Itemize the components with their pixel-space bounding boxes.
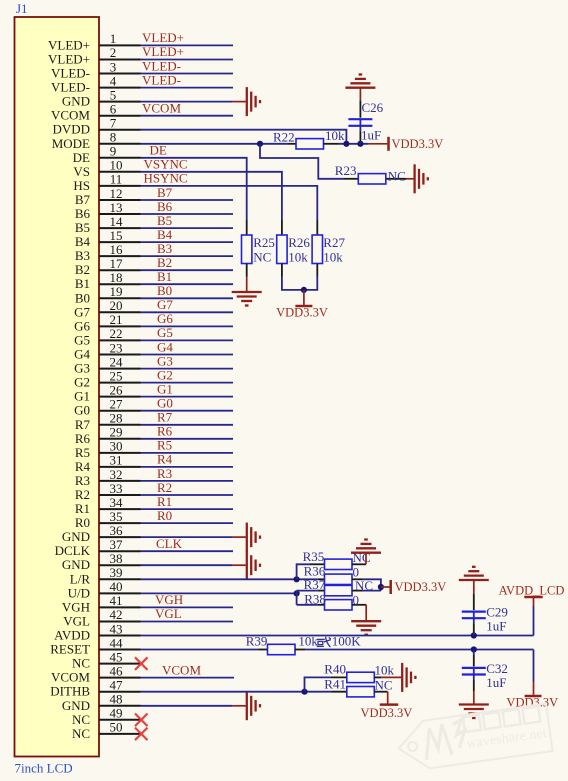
pin 21 (G6) stub, number and name <box>74 312 140 333</box>
svg-text:G2: G2 <box>74 375 90 390</box>
svg-text:R3: R3 <box>157 466 172 481</box>
no-connect X pin 45 <box>135 657 148 670</box>
svg-text:40: 40 <box>110 579 123 594</box>
ground pin 48 <box>233 691 260 720</box>
svg-text:VCOM: VCOM <box>51 670 90 685</box>
svg-text:23: 23 <box>110 340 123 355</box>
pin 12 (B7) stub, number and name <box>75 186 141 207</box>
svg-text:NC: NC <box>388 168 406 183</box>
pin 34 (R1) stub, number and name <box>75 495 141 516</box>
wire pin 23 <box>141 354 234 356</box>
pin 47 (DITHB) stub, number and name <box>50 678 140 699</box>
resistor R23 NC <box>335 163 406 184</box>
svg-text:50: 50 <box>110 720 123 735</box>
svg-text:NC: NC <box>72 726 90 741</box>
svg-text:R7: R7 <box>75 417 91 432</box>
svg-text:NC: NC <box>72 656 90 671</box>
svg-text:R38: R38 <box>304 591 326 606</box>
svg-text:R2: R2 <box>157 480 172 495</box>
wire pin 22 <box>141 339 234 341</box>
pin 18 (B1) stub, number and name <box>75 270 141 291</box>
junction DVDD/R22 <box>343 141 349 147</box>
svg-text:AVDD: AVDD <box>54 628 90 643</box>
svg-text:G5: G5 <box>157 325 173 340</box>
svg-text:8: 8 <box>110 130 117 145</box>
svg-text:G4: G4 <box>157 339 173 354</box>
svg-text:G7: G7 <box>157 297 173 312</box>
wire R36 right to VDD riser <box>362 579 381 590</box>
svg-text:0: 0 <box>353 592 360 607</box>
watermark text <box>463 706 548 751</box>
wire R26/R27 bottoms joined <box>282 277 317 290</box>
wire pin 12 <box>141 199 234 201</box>
svg-text:VSYNC: VSYNC <box>144 157 188 172</box>
watermark waveshare tag <box>395 704 552 773</box>
wire pin 29 <box>141 438 234 440</box>
svg-text:GND: GND <box>62 698 90 713</box>
junction C32 on row 44 <box>471 646 477 652</box>
wire pin 36 <box>141 536 233 538</box>
svg-text:R2: R2 <box>75 487 90 502</box>
junction row 47 / R40 riser <box>301 689 307 695</box>
wire DITHB row 47 to R41 <box>141 691 331 693</box>
svg-text:R40: R40 <box>324 662 346 677</box>
svg-text:R37: R37 <box>304 577 326 592</box>
wire pin 30 <box>141 452 234 454</box>
pin 41 (VGH) stub, number and name <box>62 593 141 614</box>
wire pin 34 <box>141 508 234 510</box>
svg-text:NC: NC <box>253 250 271 265</box>
svg-text:C32: C32 <box>486 661 508 676</box>
svg-text:DCLK: DCLK <box>55 543 91 558</box>
svg-text:VDD3.3V: VDD3.3V <box>392 137 444 151</box>
pin 46 (VCOM) stub, number and name <box>51 663 141 684</box>
pin 37 (DCLK) stub, number and name <box>55 537 141 558</box>
svg-text:VGL: VGL <box>155 606 182 621</box>
wire riser R37 to R38 <box>296 591 298 605</box>
wire pin 25 <box>141 382 234 384</box>
wire pin 32 <box>141 480 234 482</box>
svg-text:G7: G7 <box>74 304 90 319</box>
pin 9 (DE) stub, number and name <box>73 144 141 165</box>
svg-text:36: 36 <box>110 523 124 538</box>
svg-text:R35: R35 <box>303 549 325 564</box>
svg-text:10k: 10k <box>288 250 308 265</box>
capacitor C32 1uF <box>462 650 508 692</box>
svg-text:B3: B3 <box>75 248 90 263</box>
resistor R37 NC <box>304 577 373 596</box>
wire R37 right lead to VDD junction <box>362 590 381 592</box>
pin 48 (GND) stub, number and name <box>62 692 141 713</box>
svg-text:DITHB: DITHB <box>50 684 90 699</box>
svg-text:R5: R5 <box>75 445 90 460</box>
svg-text:46: 46 <box>110 663 124 678</box>
pin 8 (MODE) stub, number and name <box>52 130 141 151</box>
svg-text:30: 30 <box>110 439 123 454</box>
svg-text:24: 24 <box>110 354 124 369</box>
wire pin 21 <box>141 325 234 327</box>
resistor R26 10k <box>277 219 311 276</box>
svg-text:2: 2 <box>110 45 117 60</box>
wire pin 27 <box>141 410 234 412</box>
svg-text:1: 1 <box>110 31 117 46</box>
svg-text:44: 44 <box>110 635 124 650</box>
svg-text:34: 34 <box>110 495 124 510</box>
svg-text:VLED+: VLED+ <box>142 44 184 59</box>
svg-text:17: 17 <box>110 256 124 271</box>
wire AVDD riser <box>533 606 535 636</box>
svg-text:49: 49 <box>110 706 123 721</box>
svg-text:GND: GND <box>62 94 90 109</box>
svg-text:VS: VS <box>73 164 90 179</box>
resistor R39 10k/100K <box>141 634 306 655</box>
svg-text:R6: R6 <box>75 431 91 446</box>
svg-text:NC: NC <box>72 712 90 727</box>
svg-text:R4: R4 <box>75 459 91 474</box>
wire pin 4 <box>141 87 234 89</box>
svg-text:42: 42 <box>110 607 123 622</box>
svg-text:10k: 10k <box>298 634 318 649</box>
svg-text:L/R: L/R <box>70 571 91 586</box>
svg-text:GND: GND <box>62 529 90 544</box>
svg-text:C26: C26 <box>362 100 384 115</box>
pin 22 (G5) stub, number and name <box>74 326 140 347</box>
wire pin 24 <box>141 368 234 370</box>
power VDD3.3V (below R26/R27) <box>276 290 328 319</box>
pin 38 (GND) stub, number and name <box>62 551 141 572</box>
wire pin 26 <box>141 396 234 398</box>
wire pin 3 <box>141 73 234 75</box>
wire pin 35 <box>141 522 234 524</box>
pin 14 (B5) stub, number and name <box>75 214 141 235</box>
svg-text:R4: R4 <box>157 452 173 467</box>
svg-text:VGH: VGH <box>62 599 90 614</box>
svg-text:38: 38 <box>110 551 123 566</box>
svg-text:B7: B7 <box>157 185 173 200</box>
pin 13 (B6) stub, number and name <box>75 200 141 221</box>
svg-text:VDD3.3V: VDD3.3V <box>276 305 328 319</box>
svg-text:R39: R39 <box>246 634 268 649</box>
wire riser to R37 <box>297 590 318 592</box>
svg-text:AVDD_LCD: AVDD_LCD <box>499 584 565 598</box>
svg-text:VGL: VGL <box>63 614 90 629</box>
svg-text:21: 21 <box>110 312 123 327</box>
ground above R35 <box>351 540 381 565</box>
resistor R35 NC <box>303 549 371 570</box>
pin 6 (VCOM) stub, number and name <box>51 102 141 123</box>
svg-text:22: 22 <box>110 326 123 341</box>
pin 4 (VLED-) stub, number and name <box>51 73 141 94</box>
svg-text:16: 16 <box>110 242 124 257</box>
svg-text:G5: G5 <box>74 332 90 347</box>
svg-text:7: 7 <box>110 116 117 131</box>
pin 35 (R0) stub, number and name <box>75 509 141 530</box>
svg-text:VCOM: VCOM <box>162 662 201 677</box>
junction VDD at R36/R37 <box>378 584 384 590</box>
wire AVDD row 43 <box>141 635 534 637</box>
svg-text:B1: B1 <box>75 276 90 291</box>
svg-text:B0: B0 <box>157 283 172 298</box>
resistor R27 10k <box>312 219 345 276</box>
svg-text:G6: G6 <box>74 318 90 333</box>
svg-text:G2: G2 <box>157 367 173 382</box>
svg-text:DE: DE <box>150 143 167 158</box>
svg-text:28: 28 <box>110 411 123 426</box>
svg-text:U/D: U/D <box>68 585 90 600</box>
wire pin 19 <box>141 297 234 299</box>
wire pin 15 <box>141 241 234 243</box>
svg-text:VCOM: VCOM <box>51 108 90 123</box>
ground at R23 <box>406 164 428 193</box>
svg-text:43: 43 <box>110 621 123 636</box>
capacitor C29 1uF <box>462 594 508 636</box>
wire pin 16 <box>141 255 234 257</box>
svg-text:6: 6 <box>110 102 117 117</box>
svg-text:R3: R3 <box>75 473 90 488</box>
svg-text:13: 13 <box>110 200 123 215</box>
svg-text:VDD3.3V: VDD3.3V <box>361 706 413 720</box>
svg-text:R26: R26 <box>288 235 310 250</box>
svg-text:VCOM: VCOM <box>142 101 181 116</box>
pin 1 (VLED+) stub, number and name <box>48 31 141 52</box>
pin 31 (R4) stub, number and name <box>75 453 141 474</box>
svg-text:R0: R0 <box>75 515 90 530</box>
pin 44 (RESET) stub, number and name <box>50 635 140 656</box>
pin 42 (VGL) stub, number and name <box>63 607 140 628</box>
svg-text:15: 15 <box>110 228 123 243</box>
svg-text:VDD3.3V: VDD3.3V <box>395 580 447 594</box>
svg-text:B7: B7 <box>75 192 91 207</box>
pin 36 (GND) stub, number and name <box>62 523 141 544</box>
svg-text:20: 20 <box>110 298 123 313</box>
svg-text:B5: B5 <box>75 220 90 235</box>
wire pin 31 <box>141 466 234 468</box>
wire RESET row 44 to riser <box>305 649 534 651</box>
svg-text:GND: GND <box>62 557 90 572</box>
svg-text:R6: R6 <box>157 424 173 439</box>
pin 5 (GND) stub, number and name <box>62 87 141 108</box>
ground pin 5 <box>233 87 260 116</box>
svg-text:HS: HS <box>73 178 90 193</box>
wire pin 46 <box>141 677 235 679</box>
wire U/D row 40 <box>141 592 297 594</box>
svg-text:MODE: MODE <box>52 136 90 151</box>
svg-text:9: 9 <box>110 144 117 159</box>
resistor R22 10k <box>273 128 345 149</box>
pin 50 (NC) stub, number and name <box>72 720 141 741</box>
ground above C26 <box>345 75 375 101</box>
svg-text:VLED+: VLED+ <box>48 37 90 52</box>
wire pin 28 <box>141 424 234 426</box>
resistor R25 NC <box>242 219 275 276</box>
pin 17 (B2) stub, number and name <box>75 256 141 277</box>
svg-text:3: 3 <box>110 59 117 74</box>
ground at R40 <box>381 663 415 692</box>
power VDD3.3V (R36/R37) <box>381 580 446 594</box>
svg-text:R27: R27 <box>323 235 345 250</box>
svg-text:VLED+: VLED+ <box>48 52 90 67</box>
pin 11 (HS) stub, number and name <box>73 172 140 193</box>
pin 45 (NC) stub, number and name <box>72 649 141 670</box>
wire VDD riser down <box>533 650 535 682</box>
svg-text:RESET: RESET <box>50 642 90 657</box>
power AVDD_LCD <box>499 584 565 606</box>
wire pin 1 <box>141 44 234 46</box>
svg-text:10k: 10k <box>375 663 395 678</box>
ground pin 38 <box>233 551 260 580</box>
power VDD3.3V (row 8) <box>368 137 443 151</box>
resistor R40 10k <box>324 662 394 683</box>
junction C26/R22 <box>357 141 363 147</box>
svg-text:32: 32 <box>110 467 123 482</box>
junction node row 8 / DE riser <box>257 141 263 147</box>
wire pin 5 <box>141 101 233 103</box>
power VDD3.3V (bottom right) <box>506 682 558 710</box>
svg-text:R23: R23 <box>335 163 357 178</box>
svg-text:R5: R5 <box>157 438 172 453</box>
wire pin 13 <box>141 213 234 215</box>
svg-text:CLK: CLK <box>156 536 183 551</box>
wire L/R row 39 to R36 <box>141 578 318 580</box>
wire pin 41 <box>141 606 234 608</box>
svg-text:R7: R7 <box>157 410 173 425</box>
pin 29 (R6) stub, number and name <box>75 425 141 446</box>
svg-text:B4: B4 <box>157 227 173 242</box>
wire MODE row 8 to R22 <box>141 143 289 145</box>
no-connect X pin 50 <box>135 728 148 741</box>
pin 32 (R3) stub, number and name <box>75 467 141 488</box>
ground below R25 <box>232 277 262 306</box>
svg-text:J1: J1 <box>16 1 28 16</box>
ground pin 36 <box>233 523 260 552</box>
svg-text:R1: R1 <box>75 501 90 516</box>
junction R26/R27 to VDD <box>301 287 307 293</box>
svg-text:37: 37 <box>110 537 124 552</box>
wire pin 48 <box>141 705 233 707</box>
pin 27 (G0) stub, number and name <box>74 397 140 418</box>
wire pin 6 <box>141 115 234 117</box>
svg-text:31: 31 <box>110 453 123 468</box>
svg-text:G0: G0 <box>157 396 173 411</box>
ground below C32 <box>459 691 489 718</box>
pin 20 (G7) stub, number and name <box>74 298 140 319</box>
wire pin 33 <box>141 494 234 496</box>
svg-text:NC: NC <box>375 678 393 693</box>
capacitor C26 1uF <box>348 100 383 144</box>
svg-text:HSYNC: HSYNC <box>144 171 188 186</box>
svg-text:47: 47 <box>110 678 124 693</box>
svg-text:B6: B6 <box>157 199 173 214</box>
svg-text:VLED-: VLED- <box>51 66 90 81</box>
svg-text:B6: B6 <box>75 206 91 221</box>
svg-text:100K: 100K <box>332 634 362 649</box>
svg-text:G3: G3 <box>74 361 90 376</box>
pin 26 (G1) stub, number and name <box>74 382 140 403</box>
pin 19 (B0) stub, number and name <box>75 284 141 305</box>
svg-text:R41: R41 <box>324 677 346 692</box>
svg-text:B2: B2 <box>157 255 172 270</box>
svg-text:G0: G0 <box>74 403 90 418</box>
svg-text:7inch LCD: 7inch LCD <box>15 761 73 776</box>
wire DVDD row 7 drops to R22 output <box>141 130 347 144</box>
svg-text:10k: 10k <box>323 250 343 265</box>
svg-text:39: 39 <box>110 565 123 580</box>
pin 49 (NC) stub, number and name <box>72 706 141 727</box>
svg-text:10: 10 <box>110 158 123 173</box>
wire pin 20 <box>141 311 234 313</box>
wire riser to R40 <box>305 677 331 691</box>
svg-text:G4: G4 <box>74 347 90 362</box>
wire HSYNC row 11 turns down to R27 <box>141 186 318 219</box>
wire pin 18 <box>141 283 234 285</box>
pin 25 (G2) stub, number and name <box>74 368 140 389</box>
pin 40 (U/D) stub, number and name <box>68 579 141 600</box>
svg-text:B0: B0 <box>75 290 90 305</box>
svg-text:27: 27 <box>110 397 124 412</box>
wire riser to R38 <box>297 604 318 606</box>
glyph huo (or) <box>317 637 331 647</box>
pin 7 (DVDD) stub, number and name <box>52 116 140 137</box>
pin 10 (VS) stub, number and name <box>73 158 140 179</box>
ground below R38 <box>351 605 381 635</box>
svg-text:25: 25 <box>110 368 123 383</box>
wire pin 14 <box>141 227 234 229</box>
wire DE riser to R23 jog <box>260 144 344 179</box>
svg-text:VLED-: VLED- <box>142 58 181 73</box>
svg-text:R22: R22 <box>273 130 295 145</box>
wire pin 2 <box>141 59 234 61</box>
svg-text:5: 5 <box>110 87 117 102</box>
svg-text:G1: G1 <box>74 389 90 404</box>
pin 3 (VLED-) stub, number and name <box>51 59 141 80</box>
svg-text:VLED-: VLED- <box>142 72 181 87</box>
svg-text:35: 35 <box>110 509 123 524</box>
svg-text:B1: B1 <box>157 269 172 284</box>
pin 30 (R5) stub, number and name <box>75 439 141 460</box>
svg-text:VGH: VGH <box>155 592 183 607</box>
wire pin 42 <box>141 621 234 623</box>
ground above C29 <box>459 567 489 594</box>
svg-text:18: 18 <box>110 270 123 285</box>
svg-text:C29: C29 <box>486 604 508 619</box>
svg-text:VLED-: VLED- <box>51 80 90 95</box>
pin 43 (AVDD) stub, number and name <box>54 621 140 642</box>
wire pin 17 <box>141 269 234 271</box>
pin 2 (VLED+) stub, number and name <box>48 45 141 66</box>
power VDD3.3V (below R41) <box>361 692 413 720</box>
wire riser to R35 <box>297 564 310 579</box>
pin 16 (B3) stub, number and name <box>75 242 141 263</box>
pin 33 (R2) stub, number and name <box>75 481 141 502</box>
svg-text:G1: G1 <box>157 381 173 396</box>
svg-text:1uF: 1uF <box>361 128 381 143</box>
wire VSYNC row 10 turns down to R26 <box>141 172 282 219</box>
svg-text:14: 14 <box>110 214 124 229</box>
svg-text:B5: B5 <box>157 213 172 228</box>
svg-text:R25: R25 <box>253 235 275 250</box>
wire R22 to VDD junction <box>339 143 369 145</box>
connector J1 body <box>15 17 100 757</box>
svg-text:B2: B2 <box>75 262 90 277</box>
resistor R41 NC <box>324 677 392 697</box>
pin 28 (R7) stub, number and name <box>75 411 141 432</box>
junction row 39 / R35 riser <box>294 576 300 582</box>
svg-text:R0: R0 <box>157 508 172 523</box>
svg-text:48: 48 <box>110 692 123 707</box>
svg-text:45: 45 <box>110 649 123 664</box>
svg-text:B4: B4 <box>75 234 91 249</box>
svg-text:33: 33 <box>110 481 123 496</box>
